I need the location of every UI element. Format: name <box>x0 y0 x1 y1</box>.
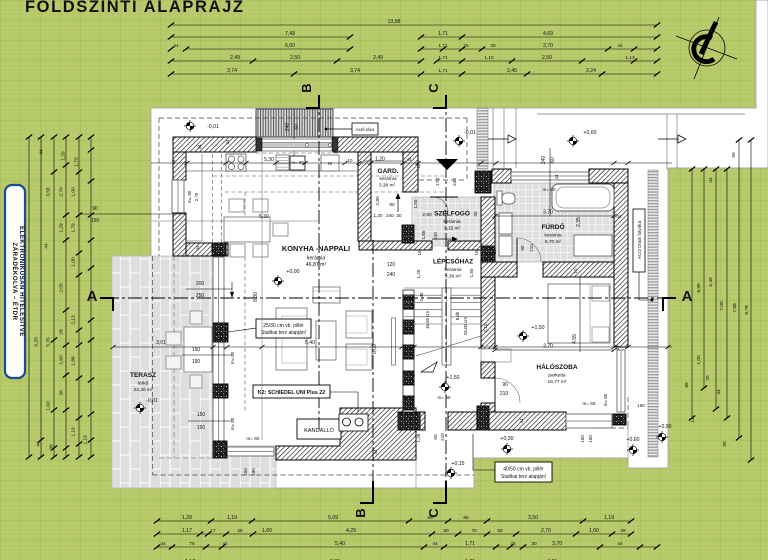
section line A <box>105 297 676 299</box>
svg-text:parketta: parketta <box>548 373 566 379</box>
svg-text:8,30: 8,30 <box>253 292 259 302</box>
svg-text:kerámia: kerámia <box>444 267 461 273</box>
svg-text:170: 170 <box>435 178 441 186</box>
svg-text:60: 60 <box>550 157 556 163</box>
bath door swing <box>517 238 541 262</box>
svg-text:240: 240 <box>386 213 394 218</box>
coffee table <box>316 321 336 360</box>
svg-text:85: 85 <box>463 515 469 521</box>
stair break line <box>416 336 481 356</box>
north wall right segment <box>333 137 418 152</box>
staircase treads <box>404 288 481 324</box>
elevation -0,01 top left <box>184 120 196 132</box>
front door swing <box>433 197 448 212</box>
upper floor dashed contour <box>213 175 446 177</box>
svg-text:76: 76 <box>189 541 195 547</box>
svg-text:30: 30 <box>473 211 478 217</box>
svg-text:1,60: 1,60 <box>46 401 52 411</box>
bath cabinet <box>499 213 512 234</box>
section marker C bottom <box>433 481 446 503</box>
svg-text:+0,90: +0,90 <box>658 424 671 430</box>
svg-text:3,74: 3,74 <box>227 68 237 74</box>
interior dim line kitchen <box>151 162 672 164</box>
svg-text:150: 150 <box>91 218 100 224</box>
svg-text:1,19: 1,19 <box>227 515 237 521</box>
bath north wall right piece <box>589 169 628 183</box>
svg-text:44: 44 <box>225 139 230 144</box>
facade pillar mid-lower <box>213 384 228 398</box>
porch pillar <box>475 171 491 193</box>
svg-text:10: 10 <box>417 250 422 255</box>
svg-text:44: 44 <box>373 449 378 455</box>
svg-text:B: B <box>299 83 314 92</box>
svg-text:3,38 m²: 3,38 m² <box>379 183 396 189</box>
svg-text:5,09: 5,09 <box>328 515 338 521</box>
svg-text:190: 190 <box>197 425 206 431</box>
svg-text:90: 90 <box>502 382 508 388</box>
bottom dimension row 2 <box>157 533 631 535</box>
svg-text:28: 28 <box>59 329 65 335</box>
top dimension row 13,88 <box>171 24 657 26</box>
svg-text:+0,60: +0,60 <box>583 130 596 136</box>
svg-text:44: 44 <box>222 541 228 547</box>
svg-text:9,36 m²: 9,36 m² <box>445 274 462 280</box>
stair southwest block <box>398 412 420 430</box>
svg-text:25: 25 <box>463 43 469 49</box>
svg-text:1,71: 1,71 <box>438 55 448 61</box>
hall west wall <box>481 277 495 349</box>
section marker B bottom <box>360 481 373 503</box>
svg-text:1,00: 1,00 <box>71 257 77 267</box>
left dimension block <box>28 137 30 457</box>
svg-text:M: M <box>328 161 332 167</box>
svg-text:GARD.: GARD. <box>378 168 399 175</box>
svg-text:7,48: 7,48 <box>285 31 295 37</box>
svg-text:25: 25 <box>510 541 516 547</box>
svg-text:30: 30 <box>490 43 496 49</box>
svg-text:40/50 cm vb. pillér: 40/50 cm vb. pillér <box>503 467 544 473</box>
section line B lower <box>372 240 374 503</box>
svg-text:m= 60: m= 60 <box>583 401 596 406</box>
svg-text:240: 240 <box>285 123 291 132</box>
svg-text:+0,60: +0,60 <box>626 437 639 443</box>
glass facade window upper <box>213 257 224 323</box>
svg-text:44: 44 <box>197 144 202 149</box>
facade pillar top <box>212 243 226 256</box>
svg-text:44: 44 <box>615 345 620 350</box>
szelfogo arrow <box>442 238 462 240</box>
svg-text:+0,15: +0,15 <box>451 461 464 467</box>
svg-text:60: 60 <box>294 124 300 130</box>
svg-text:2,70: 2,70 <box>541 528 551 534</box>
svg-text:1,10: 1,10 <box>484 55 494 61</box>
svg-text:2,80: 2,80 <box>375 196 381 206</box>
hall west wall below bedroom door <box>481 403 495 412</box>
terrace awning dashed lines <box>173 256 175 458</box>
stair rails <box>442 288 451 365</box>
elevation +0,15 <box>445 467 457 479</box>
svg-text:6,99: 6,99 <box>696 283 702 293</box>
pillar at gard south <box>402 225 414 243</box>
label box KANDALLO <box>297 419 341 439</box>
svg-text:10: 10 <box>474 250 479 255</box>
svg-text:1,79: 1,79 <box>71 223 77 233</box>
svg-text:4,29: 4,29 <box>346 528 356 534</box>
svg-text:A: A <box>87 288 98 305</box>
svg-text:16,66 cm: 16,66 cm <box>425 311 430 329</box>
svg-text:-0,01: -0,01 <box>207 124 219 130</box>
svg-text:44: 44 <box>432 541 438 547</box>
west wall upper <box>173 152 186 180</box>
bath window dim <box>549 148 551 216</box>
svg-text:39: 39 <box>49 444 55 450</box>
svg-text:44: 44 <box>617 214 622 219</box>
svg-text:3,70: 3,70 <box>543 210 553 216</box>
svg-text:120: 120 <box>387 262 396 268</box>
svg-text:kerámia: kerámia <box>307 256 326 262</box>
pillar southeast corner <box>613 414 626 425</box>
facade pillar bottom <box>213 441 227 458</box>
svg-text:6,60: 6,60 <box>285 43 295 49</box>
svg-text:70: 70 <box>471 528 477 534</box>
svg-text:SZÉLFOGÓ: SZÉLFOGÓ <box>434 209 470 218</box>
svg-text:44: 44 <box>617 43 623 49</box>
svg-text:ZÁRADÉKOLVA – ÉTDR: ZÁRADÉKOLVA – ÉTDR <box>11 243 19 321</box>
terrace table <box>184 327 212 372</box>
svg-text:3,70: 3,70 <box>543 43 553 49</box>
gard dims <box>364 160 403 162</box>
bedroom south wall <box>489 412 566 430</box>
top dimension row 3,74 <box>171 73 555 75</box>
svg-text:44: 44 <box>554 174 559 179</box>
svg-text:10: 10 <box>348 158 353 163</box>
svg-text:2,49: 2,49 <box>230 55 240 61</box>
svg-text:1,29: 1,29 <box>59 223 65 233</box>
svg-text:90: 90 <box>389 202 395 208</box>
svg-text:A: A <box>682 288 693 305</box>
svg-text:1,17: 1,17 <box>182 528 192 534</box>
svg-text:250: 250 <box>196 293 205 299</box>
shower tray <box>574 235 612 256</box>
ACO drain channel right side <box>648 170 658 457</box>
svg-text:Statikai terv alapján!: Statikai terv alapján! <box>501 474 546 480</box>
svg-text:90: 90 <box>92 206 98 212</box>
svg-text:16,77 m²: 16,77 m² <box>548 379 567 385</box>
svg-text:5,30: 5,30 <box>264 157 274 163</box>
svg-text:30: 30 <box>396 213 402 218</box>
pillar south of hall <box>477 406 489 430</box>
svg-text:-0,01: -0,01 <box>464 130 476 136</box>
svg-text:1,71: 1,71 <box>438 31 448 37</box>
furdo tiled floor <box>494 183 614 262</box>
svg-text:44: 44 <box>160 541 166 547</box>
svg-text:2,24: 2,24 <box>586 68 596 74</box>
svg-text:kerámia: kerámia <box>443 219 460 225</box>
svg-text:150: 150 <box>192 347 201 353</box>
svg-text:5,76: 5,76 <box>46 337 52 347</box>
bath dim 3,70 <box>495 215 614 217</box>
svg-text:44: 44 <box>195 245 200 250</box>
section marker C top <box>433 95 446 108</box>
TV on stair wall <box>392 318 396 365</box>
elevation +0,90 <box>656 431 668 443</box>
gard arrow <box>397 197 399 212</box>
svg-text:6,49: 6,49 <box>708 277 714 287</box>
svg-text:90: 90 <box>520 245 525 251</box>
elevation +1,50 hall <box>439 381 451 393</box>
svg-text:m= 90: m= 90 <box>291 160 304 165</box>
stair south wall east piece <box>448 412 477 430</box>
elevation +1,50 bedroom <box>517 330 529 342</box>
north symbol <box>676 17 737 79</box>
svg-text:+1,50: +1,50 <box>531 325 544 331</box>
svg-text:Statikai terv alapján!: Statikai terv alapján! <box>261 330 306 336</box>
svg-text:2,90: 2,90 <box>422 212 432 218</box>
svg-text:190: 190 <box>192 359 201 365</box>
svg-text:44: 44 <box>708 177 714 183</box>
svg-text:3,15 m²: 3,15 m² <box>444 226 461 232</box>
svg-text:4,55: 4,55 <box>572 334 578 344</box>
svg-text:B: B <box>353 508 368 517</box>
svg-text:44: 44 <box>36 441 42 447</box>
svg-text:+0,00: +0,00 <box>286 269 299 275</box>
svg-text:Acél rács: Acél rács <box>356 127 375 132</box>
svg-text:1,00: 1,00 <box>696 355 702 365</box>
elevation +0,60 driveway <box>567 135 579 147</box>
svg-text:240: 240 <box>541 156 547 165</box>
svg-text:5,40: 5,40 <box>305 340 315 346</box>
svg-text:1,71: 1,71 <box>438 68 448 74</box>
svg-text:10: 10 <box>573 268 578 273</box>
svg-text:89: 89 <box>684 382 690 388</box>
washing machine M <box>321 155 339 171</box>
svg-text:1,26: 1,26 <box>416 433 421 442</box>
walkway edge line <box>627 425 629 458</box>
svg-text:150: 150 <box>580 435 585 443</box>
bath window north <box>511 172 589 180</box>
svg-text:m= 60: m= 60 <box>247 436 260 441</box>
svg-text:1,20: 1,20 <box>416 269 421 278</box>
svg-text:-0,01: -0,01 <box>146 398 158 404</box>
svg-text:+1,50: +1,50 <box>446 375 459 381</box>
svg-text:2,05: 2,05 <box>59 283 65 293</box>
entrance arrow triangle <box>436 159 458 170</box>
terrace chairs <box>166 332 181 345</box>
svg-text:240: 240 <box>433 232 438 240</box>
svg-text:5,30: 5,30 <box>259 214 269 220</box>
svg-text:44: 44 <box>519 418 524 423</box>
svg-text:8,70 m²: 8,70 m² <box>545 239 562 245</box>
svg-text:25: 25 <box>705 375 711 381</box>
svg-text:2,40: 2,40 <box>419 292 424 301</box>
north wall left segment <box>173 137 256 152</box>
svg-text:ACO Drain folyóka: ACO Drain folyóka <box>637 221 642 259</box>
note box 25/30 pillar <box>228 328 256 332</box>
section marker A right <box>663 298 676 311</box>
entrance drain strip <box>477 108 488 169</box>
svg-text:200: 200 <box>196 281 205 287</box>
svg-text:150: 150 <box>637 403 645 408</box>
hall door arrow <box>432 238 452 240</box>
svg-text:210: 210 <box>440 433 445 441</box>
walkway step edge <box>415 460 417 488</box>
svg-text:KONYHA -NAPPALI: KONYHA -NAPPALI <box>282 244 350 253</box>
svg-text:1,71: 1,71 <box>438 43 448 49</box>
svg-text:17: 17 <box>210 528 216 534</box>
svg-text:ELEKTRONIKUSAN HITELESÍTVE: ELEKTRONIKUSAN HITELESÍTVE <box>18 226 26 337</box>
svg-text:24,30 m²: 24,30 m² <box>134 387 153 393</box>
svg-text:K2: SCHIEDEL UNI Plus 22: K2: SCHIEDEL UNI Plus 22 <box>258 390 325 396</box>
bed <box>548 284 610 343</box>
svg-text:m= 60: m= 60 <box>230 351 235 364</box>
bath south wall right of door <box>543 262 614 277</box>
svg-text:1,60: 1,60 <box>589 528 599 534</box>
svg-text:2,50: 2,50 <box>542 55 552 61</box>
svg-text:3,74: 3,74 <box>350 68 360 74</box>
bedroom south window <box>566 414 612 428</box>
svg-text:1,19: 1,19 <box>71 427 77 437</box>
svg-text:240: 240 <box>387 272 396 278</box>
svg-text:28: 28 <box>59 390 65 396</box>
svg-text:1,29: 1,29 <box>61 151 67 161</box>
bedroom wall niche <box>481 349 511 362</box>
svg-text:2,10: 2,10 <box>483 323 488 332</box>
top dimension row 2,49 2,50 <box>171 60 421 62</box>
bedroom dim 3,70 <box>495 349 614 351</box>
svg-text:3,01: 3,01 <box>156 340 166 346</box>
svg-text:1,71: 1,71 <box>465 541 475 547</box>
svg-text:1,20: 1,20 <box>375 157 385 163</box>
svg-text:85: 85 <box>427 515 433 521</box>
section marker B top <box>306 95 319 108</box>
driveway walk lines <box>492 108 494 168</box>
top dimension row 6,60 / 3,70 <box>186 48 350 50</box>
svg-text:95: 95 <box>722 441 728 447</box>
armchair <box>313 287 340 303</box>
svg-text:HÁLÓSZOBA: HÁLÓSZOBA <box>536 362 577 371</box>
svg-text:2,35: 2,35 <box>576 217 582 227</box>
svg-text:LÉPCSŐHÁZ: LÉPCSŐHÁZ <box>433 257 473 266</box>
stair west wall with glass blocks <box>403 290 414 412</box>
svg-text:240: 240 <box>452 178 458 186</box>
terrace paving <box>112 256 276 488</box>
kitchen counter <box>187 170 359 172</box>
svg-text:50: 50 <box>443 528 449 534</box>
west wall window <box>172 180 184 213</box>
svg-text:m= 90: m= 90 <box>187 190 192 203</box>
svg-text:10: 10 <box>492 249 497 254</box>
svg-text:2,45: 2,45 <box>507 68 517 74</box>
svg-text:6,20: 6,20 <box>34 337 40 347</box>
svg-text:3,70: 3,70 <box>543 344 553 350</box>
bath north wall left piece <box>492 169 511 183</box>
svg-text:95: 95 <box>731 152 737 158</box>
drain slope arrows <box>488 138 508 140</box>
svg-text:C: C <box>426 83 441 93</box>
ETDR electronic stamp badge <box>5 185 25 378</box>
svg-text:1,20: 1,20 <box>182 515 192 521</box>
living south sliding window <box>227 447 274 456</box>
svg-text:44: 44 <box>716 389 722 395</box>
gard south wall <box>359 241 432 250</box>
stove <box>226 154 246 171</box>
bottom dimension row 1 <box>157 520 631 522</box>
svg-text:2,49: 2,49 <box>373 55 383 61</box>
fireplace and south wall mass <box>276 408 416 460</box>
sofa right upper <box>346 311 372 338</box>
svg-text:30: 30 <box>531 541 537 547</box>
svg-text:44: 44 <box>39 149 45 155</box>
svg-text:kerámia: kerámia <box>544 233 561 239</box>
bathtub <box>552 184 614 211</box>
sofa right lower <box>346 344 372 370</box>
svg-text:150: 150 <box>588 435 593 443</box>
svg-text:13,88: 13,88 <box>388 19 401 25</box>
gard west wall <box>358 152 371 241</box>
section line B upper <box>318 95 320 430</box>
svg-text:1,00: 1,00 <box>71 187 77 197</box>
facade pillar middle <box>213 323 228 342</box>
svg-text:44: 44 <box>171 159 176 164</box>
stair south wall piece <box>420 412 425 430</box>
bedroom door swing <box>495 378 520 403</box>
svg-text:9,78: 9,78 <box>744 305 750 315</box>
svg-text:44: 44 <box>173 43 179 49</box>
bath toilet <box>497 191 502 205</box>
dining table <box>224 217 270 242</box>
kitchen counter west edge <box>201 154 203 241</box>
svg-text:6,00: 6,00 <box>372 344 378 354</box>
label box ACO drain <box>633 209 645 272</box>
interior dim line living <box>113 346 672 348</box>
kitchen window north (under canopy) <box>256 139 333 151</box>
svg-text:150: 150 <box>197 412 206 418</box>
svg-text:2,70: 2,70 <box>59 187 65 197</box>
svg-text:m= 90: m= 90 <box>543 187 556 192</box>
svg-text:210: 210 <box>500 391 509 397</box>
svg-text:TERASZ: TERASZ <box>130 372 156 379</box>
svg-text:25,00 cm: 25,00 cm <box>463 317 468 335</box>
svg-text:1,50: 1,50 <box>413 199 418 208</box>
top dimension row 7,48 / 4,69 <box>171 36 350 38</box>
bottom dimension row 3 <box>157 546 657 548</box>
svg-text:8 db: 8 db <box>455 311 460 320</box>
svg-text:10: 10 <box>416 163 421 168</box>
roof overhang dashed outline <box>159 117 467 119</box>
svg-text:1,19: 1,19 <box>83 435 89 445</box>
svg-text:14: 14 <box>690 417 696 423</box>
svg-text:kerámia: kerámia <box>379 176 396 182</box>
svg-text:1,19: 1,19 <box>604 515 614 521</box>
svg-text:FÖLDSZINTI ALAPRAJZ: FÖLDSZINTI ALAPRAJZ <box>25 0 245 16</box>
svg-text:+0,30: +0,30 <box>500 436 513 442</box>
svg-text:2,70: 2,70 <box>194 192 199 201</box>
stair north wall east piece <box>448 241 481 250</box>
gard east wall <box>403 152 418 192</box>
svg-text:1,60: 1,60 <box>262 528 272 534</box>
svg-text:m= 30: m= 30 <box>438 395 451 400</box>
svg-text:46,87 m²: 46,87 m² <box>306 262 327 268</box>
note box 40/50 pillar <box>473 434 495 470</box>
sink drainer <box>276 155 289 170</box>
svg-text:térkő: térkő <box>138 381 149 387</box>
bedroom east window <box>617 350 625 412</box>
svg-text:25: 25 <box>237 528 243 534</box>
bath south wall left of door <box>481 262 517 277</box>
note box K2 Schiedel <box>330 392 358 412</box>
section line C <box>445 95 447 503</box>
svg-text:60: 60 <box>433 434 438 440</box>
